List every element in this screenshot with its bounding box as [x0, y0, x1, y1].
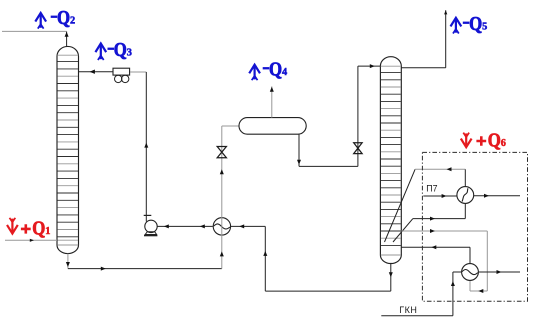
label -Q4 heat flow	[250, 58, 287, 81]
heat exchanger E3 (ГКН reboiler)	[462, 264, 479, 281]
wire: E1 cold side riser to drum	[220, 126, 239, 269]
wire: K1 overhead product line	[2, 30, 67, 32]
wire: hot-jet draw line to E2	[413, 203, 465, 220]
wire: П7 heating medium inlet	[423, 194, 457, 198]
svg-text:ГКН: ГКН	[399, 305, 417, 315]
boundary: furnace block dash-dot box	[422, 152, 527, 301]
svg-text:Q: Q	[57, 6, 70, 29]
wire: hot-jet return line from E2	[415, 167, 465, 186]
label -Q2 heat flow	[36, 6, 75, 29]
svg-text:Q: Q	[114, 38, 127, 61]
label -Q3 heat flow	[96, 38, 132, 61]
svg-text:Q: Q	[269, 58, 282, 81]
svg-text:2: 2	[70, 16, 75, 27]
svg-text:4: 4	[282, 67, 287, 78]
wire: reboiler draw line from K2	[401, 229, 487, 293]
wire: E3 hot stream outlet	[478, 270, 520, 274]
label -Q5 heat flow	[451, 12, 487, 35]
label ГКН	[399, 305, 417, 315]
wire: K1 bottoms transfer line	[68, 267, 222, 271]
svg-text:3: 3	[127, 48, 132, 59]
wire: air cooler inlet from pump riser	[130, 71, 146, 73]
column K2 vessel	[380, 57, 401, 264]
wire: E1 hot outlet to pump suction	[157, 224, 213, 228]
wire: П7 heating medium outlet	[474, 194, 520, 198]
column K2 tray lines	[381, 73, 401, 246]
column K1 vessel	[57, 46, 79, 253]
valve V1 (drum feed letdown)	[217, 147, 226, 158]
wire: ГКН hot stream supply	[381, 272, 461, 316]
heat exchanger E1 (feed/bottoms)	[213, 218, 230, 235]
label +Q1 heat flow	[8, 217, 51, 240]
wire: K1 bottoms downcomer	[66, 254, 70, 269]
wire: air cooler outlet to K1 top	[79, 70, 114, 74]
svg-text:Q: Q	[488, 129, 501, 152]
wire: feed line into K1	[5, 239, 57, 242]
label П7	[426, 184, 437, 194]
wire: K2 bottoms downcomer	[389, 264, 393, 292]
wire: K1 overhead vapor riser	[65, 31, 69, 46]
pump P1	[144, 215, 158, 235]
label +Q6 heat flow	[461, 129, 506, 152]
column K1 tray lines	[58, 62, 79, 241]
heat exchanger E2 (П7 heater)	[457, 187, 474, 204]
svg-text:1: 1	[45, 226, 50, 237]
svg-text:Q: Q	[469, 12, 482, 35]
svg-text:5: 5	[482, 22, 487, 33]
wire: K2 overhead line	[401, 10, 447, 68]
wire: K2 bottoms to E1 hot inlet	[231, 224, 391, 291]
wire: drum liquid to K2 top	[297, 64, 380, 166]
flash drum D1	[239, 118, 306, 135]
svg-text:6: 6	[501, 138, 506, 149]
wire: hot-jet draw diagonal from K2	[393, 219, 413, 242]
wire: pump discharge riser	[144, 72, 148, 215]
wire: reboiler return line to K2	[401, 245, 470, 263]
svg-text:П7: П7	[426, 184, 437, 194]
svg-text:Q: Q	[32, 217, 45, 240]
wire: drum vapor vent	[270, 86, 274, 117]
valve V2 (K2 feed)	[354, 143, 362, 154]
wire: hot-jet return diagonal into K2	[385, 169, 416, 242]
air cooler AC1	[113, 68, 130, 82]
